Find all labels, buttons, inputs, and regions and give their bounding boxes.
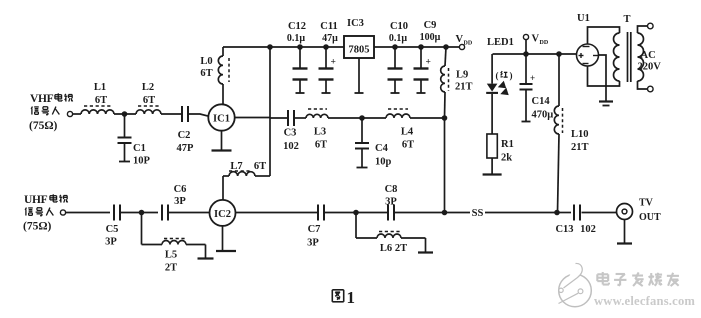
svg-text:C11: C11: [320, 21, 338, 32]
svg-text:TV: TV: [639, 198, 654, 209]
svg-text:C9: C9: [424, 20, 437, 31]
svg-text:(: (: [496, 71, 499, 81]
svg-text:C4: C4: [375, 143, 389, 154]
svg-text:T: T: [624, 14, 631, 25]
svg-text:102: 102: [283, 141, 299, 152]
svg-text:2k: 2k: [501, 153, 512, 164]
svg-text:6T: 6T: [315, 140, 327, 151]
svg-text:10P: 10P: [133, 156, 151, 167]
svg-text:C3: C3: [284, 128, 297, 139]
svg-text:L4: L4: [401, 127, 414, 138]
svg-text:AC: AC: [641, 50, 656, 61]
svg-text:(75Ω): (75Ω): [23, 221, 52, 233]
svg-text:3P: 3P: [174, 196, 186, 207]
svg-text:C6: C6: [174, 184, 187, 195]
svg-text:C14: C14: [532, 96, 551, 107]
svg-text:SS: SS: [472, 208, 484, 219]
svg-text:L3: L3: [314, 127, 326, 138]
svg-text:47μ: 47μ: [322, 33, 338, 44]
svg-text:IC3: IC3: [347, 18, 364, 29]
svg-text:L10: L10: [571, 129, 589, 140]
svg-text:6T: 6T: [200, 68, 212, 79]
svg-text:100μ: 100μ: [420, 32, 441, 43]
svg-text:LED1: LED1: [487, 37, 514, 48]
svg-text:+: +: [331, 58, 336, 68]
svg-text:VHF: VHF: [30, 93, 54, 105]
svg-text:UHF: UHF: [24, 194, 48, 206]
svg-text:DD: DD: [540, 40, 549, 46]
svg-text:6T: 6T: [254, 161, 266, 172]
svg-text:OUT: OUT: [639, 212, 661, 223]
svg-text:V: V: [532, 34, 540, 45]
svg-text:2T: 2T: [395, 243, 407, 254]
svg-text:L1: L1: [94, 82, 106, 93]
svg-text:10p: 10p: [375, 157, 392, 168]
svg-text:C12: C12: [288, 21, 306, 32]
svg-text:3P: 3P: [105, 237, 117, 248]
svg-text:IC2: IC2: [214, 209, 231, 220]
svg-text:C8: C8: [385, 184, 398, 195]
svg-text:R1: R1: [501, 139, 514, 150]
svg-text:7805: 7805: [349, 45, 370, 56]
svg-text:21T: 21T: [571, 142, 589, 153]
svg-text:C13: C13: [555, 224, 573, 235]
svg-text:C10: C10: [390, 21, 408, 32]
svg-text:47P: 47P: [177, 143, 195, 154]
svg-text:www.elecfans.com: www.elecfans.com: [594, 294, 695, 308]
svg-text:6T: 6T: [143, 95, 155, 106]
svg-text:C7: C7: [308, 224, 321, 235]
svg-text:21T: 21T: [455, 82, 473, 93]
svg-text:L9: L9: [456, 70, 468, 81]
svg-text:102: 102: [580, 224, 596, 235]
svg-text:L6: L6: [380, 243, 392, 254]
svg-text:3P: 3P: [307, 238, 319, 249]
svg-text:IC1: IC1: [213, 114, 230, 125]
svg-text:3P: 3P: [385, 197, 397, 208]
svg-text:L5: L5: [165, 250, 177, 261]
svg-text:L7: L7: [230, 161, 242, 172]
svg-text:1: 1: [347, 288, 356, 307]
svg-text:0.1μ: 0.1μ: [389, 33, 408, 44]
svg-text:6T: 6T: [402, 140, 414, 151]
svg-text:220V: 220V: [638, 62, 662, 73]
svg-text:C5: C5: [106, 224, 119, 235]
svg-text:+: +: [426, 58, 431, 68]
svg-text:6T: 6T: [95, 95, 107, 106]
svg-text:L2: L2: [142, 82, 154, 93]
svg-text:2T: 2T: [165, 263, 177, 274]
svg-text:+: +: [530, 73, 535, 83]
svg-text:DD: DD: [464, 41, 473, 47]
svg-text:): ): [510, 71, 513, 81]
svg-text:V: V: [456, 34, 464, 45]
svg-text:C2: C2: [178, 130, 191, 141]
svg-text:470μ: 470μ: [532, 110, 554, 121]
svg-text:(75Ω): (75Ω): [29, 120, 58, 132]
svg-text:0.1μ: 0.1μ: [287, 33, 306, 44]
svg-text:C1: C1: [133, 143, 146, 154]
svg-text:U1: U1: [577, 13, 590, 24]
svg-text:L0: L0: [200, 56, 212, 67]
